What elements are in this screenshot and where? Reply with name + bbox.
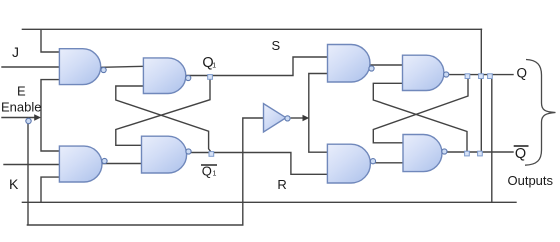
svg-text:R: R [277,177,286,192]
svg-text:J: J [12,44,19,60]
svg-text:Outputs: Outputs [508,173,554,188]
svg-text:Enable: Enable [1,100,41,115]
svg-text:E: E [17,84,26,99]
svg-text:Q: Q [517,66,528,81]
svg-text:K: K [9,176,19,192]
svg-text:Q: Q [515,146,526,162]
svg-text:1: 1 [212,63,216,70]
svg-text:1: 1 [213,171,217,178]
svg-text:S: S [272,38,281,53]
